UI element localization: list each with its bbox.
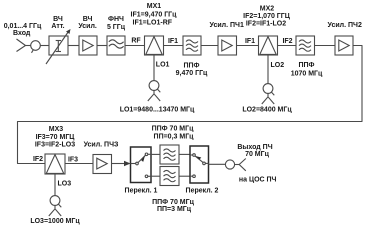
svg-text:Выход ПЧ: Выход ПЧ [237, 144, 272, 151]
svg-text:IF2: IF2 [282, 38, 292, 45]
svg-text:IF2=IF1-LO2: IF2=IF1-LO2 [246, 21, 286, 28]
svg-text:Усил.: Усил. [78, 23, 97, 30]
svg-text:ППФ 70 МГц: ППФ 70 МГц [152, 126, 195, 133]
input antenna fork [17, 39, 26, 52]
svg-text:IF2=1,070 ГГЦ: IF2=1,070 ГГЦ [243, 13, 291, 20]
amplifier Усил. ПЧ1 [218, 36, 237, 55]
svg-text:LO3: LO3 [58, 180, 72, 187]
svg-text:RF: RF [131, 38, 141, 45]
wire MX1 to BPF, node IF1 [164, 45, 184, 47]
wire wide BPF to switch 2 [179, 175, 190, 177]
svg-text:IF3: IF3 [68, 156, 78, 163]
svg-text:Усил. ПЧЗ: Усил. ПЧЗ [84, 141, 119, 148]
oscillator LO1 [148, 55, 161, 101]
svg-text:Усил. ПЧ1: Усил. ПЧ1 [210, 22, 244, 29]
svg-text:ППФ: ППФ [183, 62, 199, 69]
svg-text:5 ГГц: 5 ГГц [107, 24, 126, 31]
svg-text:LO2: LO2 [271, 62, 285, 69]
switch Перекл. 1 [131, 147, 152, 183]
wire BPF to amplifier ПЧ1 [201, 45, 218, 47]
output antenna fork [239, 159, 246, 171]
amplifier ВЧ Усил [79, 36, 97, 55]
svg-text:9,470 ГГц: 9,470 ГГц [176, 70, 208, 77]
oscillator LO2 [262, 55, 275, 104]
svg-text:1070 МГц: 1070 МГц [291, 70, 323, 77]
bandpass filter ППФ 70 МГц ПП=3 МГц [160, 167, 179, 186]
svg-text:Усил. ПЧ2: Усил. ПЧ2 [328, 22, 362, 29]
svg-text:ПП=0,3 МГц: ПП=0,3 МГц [154, 133, 195, 140]
svg-text:IF1: IF1 [245, 38, 255, 45]
switch Перекл. 2 [190, 146, 209, 183]
wire switch 1 to wide BPF [151, 175, 160, 177]
svg-text:Перекл. 2: Перекл. 2 [186, 187, 219, 194]
svg-text:ВЧ: ВЧ [53, 16, 63, 23]
wire amplifier to LPF [97, 45, 107, 47]
svg-text:ППФ: ППФ [298, 62, 314, 69]
svg-text:на ЦОС ПЧ: на ЦОС ПЧ [239, 176, 277, 183]
mixer MX1 [145, 36, 164, 55]
wire LPF to MX1, node RF [125, 45, 145, 47]
wire attenuator to amplifier [68, 45, 79, 47]
svg-text:LO1: LO1 [156, 62, 170, 69]
mixer MX2 [259, 36, 278, 55]
svg-text:ПП=3 МГц: ПП=3 МГц [157, 206, 192, 213]
bandpass filter ППФ 1070 МГц [296, 36, 315, 55]
svg-text:LO3=1000 МГц: LO3=1000 МГц [30, 218, 80, 225]
amplifier Усил. ПЧ2 [335, 36, 353, 55]
wire connector to output fork [235, 164, 240, 166]
feedback wire IF2 from amplifier ПЧ2 to MX3 [18, 46, 363, 164]
bandpass filter ППФ 9,470 ГГц [183, 36, 201, 55]
svg-text:IF1: IF1 [168, 38, 178, 45]
attenuator ВЧ Атт [46, 29, 71, 64]
svg-text:LO1=9480...13470 МГц: LO1=9480...13470 МГц [120, 107, 195, 114]
svg-text:0,01...4 ГГц: 0,01...4 ГГц [4, 23, 42, 30]
svg-text:IF3=IF2-LO3: IF3=IF2-LO3 [35, 141, 75, 148]
svg-text:МХ3: МХ3 [49, 126, 64, 133]
wire connector to attenuator [40, 45, 49, 47]
wire amplifier ПЧ1 to MX2 [237, 45, 259, 47]
wire MX2 to BPF 1070, node IF2 [278, 45, 297, 47]
wire narrow BPF to switch 2 [179, 153, 190, 155]
svg-text:ВЧ: ВЧ [83, 16, 93, 23]
wire fork to connector [26, 45, 31, 47]
bandpass filter ППФ 70 МГц ПП=0,3 МГц [160, 145, 179, 164]
svg-text:МХ2: МХ2 [260, 5, 275, 12]
svg-text:Атт.: Атт. [51, 23, 64, 30]
svg-text:IF1=LO1-RF: IF1=LO1-RF [133, 19, 173, 26]
svg-text:Вход: Вход [13, 30, 31, 37]
svg-text:LO2=8400 МГц: LO2=8400 МГц [242, 107, 292, 114]
wire BPF 1070 to amplifier ПЧ2 [315, 45, 336, 47]
svg-text:Перекл. 1: Перекл. 1 [125, 187, 158, 194]
svg-text:МХ1: МХ1 [147, 3, 162, 10]
amplifier Усил. ПЧ3 [93, 155, 112, 174]
wire switch 2 to output connector [209, 163, 226, 165]
oscillator LO3 [49, 174, 62, 216]
mixer MX3 [45, 154, 65, 174]
svg-text:70 МГц: 70 МГц [245, 151, 270, 158]
svg-text:IF3=70 МГЦ: IF3=70 МГЦ [36, 134, 76, 141]
low-pass filter ФНЧ 5 ГГц [107, 36, 125, 55]
svg-text:IF1=9,470 ГГц: IF1=9,470 ГГц [131, 11, 178, 18]
input connector [31, 41, 41, 53]
wire MX3 to amplifier ПЧ3, node IF3 [65, 163, 93, 165]
svg-text:ФНЧ: ФНЧ [108, 16, 124, 23]
output connector [225, 160, 234, 169]
wire switch 1 to narrow BPF [151, 153, 160, 155]
wire amplifier ПЧ3 to switch 1 with arrowhead [112, 161, 131, 166]
svg-text:ППФ 70 МГц: ППФ 70 МГц [152, 199, 195, 206]
svg-text:IF2: IF2 [33, 156, 43, 163]
